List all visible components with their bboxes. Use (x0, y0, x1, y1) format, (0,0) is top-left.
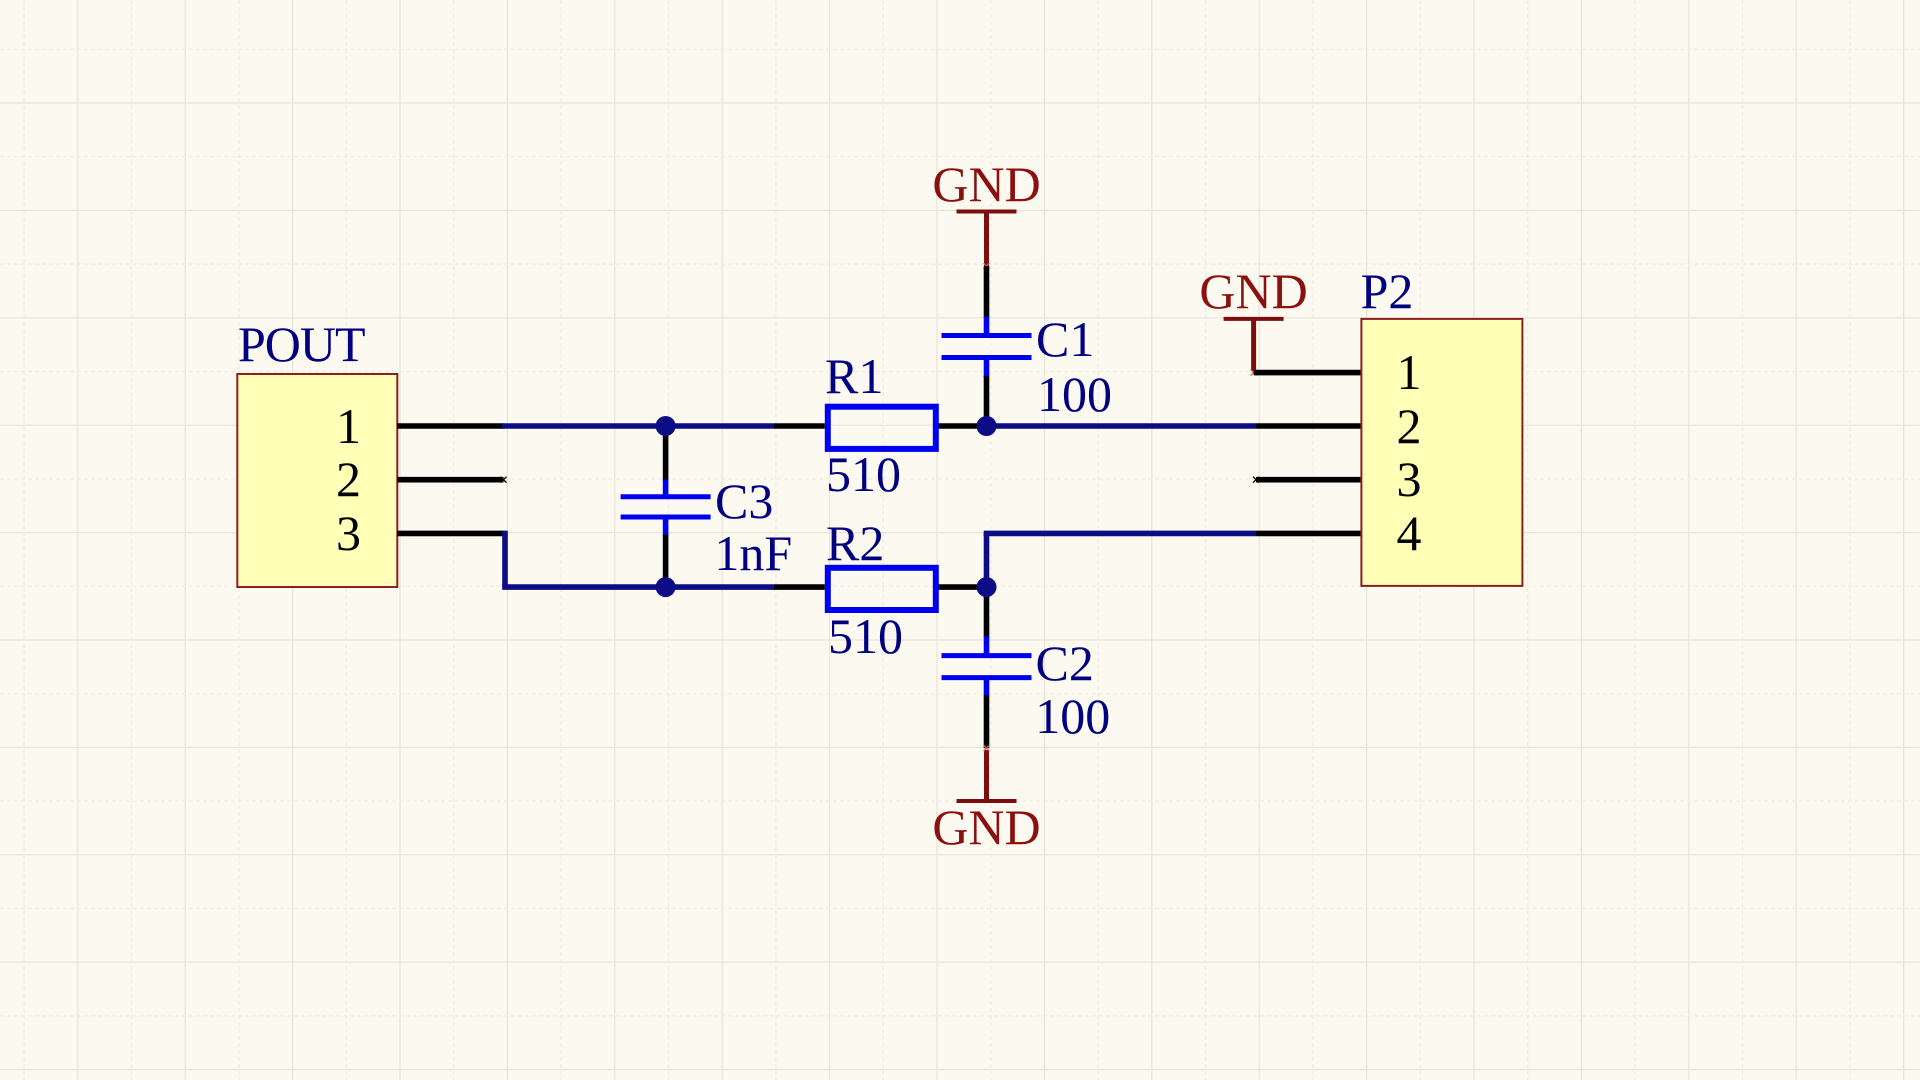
pin-end marker GND3 (984, 745, 990, 751)
wire net1 horizontal (navy) (502, 423, 773, 429)
resistor R1 pins (773, 423, 825, 429)
connector POUT body (237, 374, 397, 587)
wire to P2 pin 4 (984, 531, 1256, 537)
svg-text:GND: GND (1199, 263, 1307, 319)
svg-text:GND: GND (932, 156, 1040, 212)
resistor R2 pins (773, 584, 825, 590)
svg-text:510: 510 (828, 608, 903, 664)
svg-text:GND: GND (932, 799, 1040, 855)
capacitor C1 bottom lead (984, 376, 990, 426)
svg-text:C2: C2 (1036, 635, 1094, 691)
junction R1-C1 (977, 416, 997, 436)
pin-end marker GND1 (984, 263, 990, 269)
svg-text:C1: C1 (1036, 311, 1094, 367)
P2 pin 4 stub (1256, 531, 1361, 537)
svg-text:R2: R2 (826, 515, 884, 571)
svg-text:3: 3 (336, 505, 361, 561)
P2 pin 2 stub (1256, 423, 1361, 429)
wire from R2 junction up (984, 533, 990, 590)
capacitor C3 symbol (621, 480, 711, 536)
junction R2-C2 (977, 577, 997, 597)
capacitor C2 bottom lead (984, 695, 990, 748)
capacitor C1 symbol (942, 317, 1032, 377)
POUT pin 3 stub (397, 531, 503, 537)
resistor R2 body (828, 568, 936, 610)
resistor R1 body (828, 407, 936, 449)
gnd GND1 symbol (top) (932, 156, 1040, 266)
svg-text:4: 4 (1397, 505, 1422, 561)
POUT pin 2 end marker (501, 477, 507, 483)
svg-text:POUT: POUT (238, 316, 365, 372)
svg-text:100: 100 (1037, 366, 1112, 422)
connector P2 body (1361, 319, 1522, 586)
junction C3 bottom (656, 577, 676, 597)
capacitor C2 top lead (984, 587, 990, 637)
wire bottom net vertical drop from POUT pin3 (502, 531, 508, 588)
POUT pin 2 stub (unconnected) (397, 477, 503, 483)
capacitor C2 symbol (942, 636, 1032, 696)
P2 pin 3 stub (unconnected) (1256, 477, 1361, 483)
svg-text:2: 2 (336, 451, 361, 507)
gnd GND3 symbol (bottom) (932, 750, 1040, 855)
svg-text:100: 100 (1035, 688, 1110, 744)
svg-text:R1: R1 (825, 348, 883, 404)
POUT pin 1 stub (397, 423, 503, 429)
junction C3 top (656, 416, 676, 436)
wire net1 navy right of R1 junction (987, 423, 1257, 429)
svg-text:P2: P2 (1361, 263, 1414, 319)
wire bottom net horizontal (502, 584, 773, 590)
P2 pin 3 end marker (1253, 477, 1259, 483)
capacitor C3 bottom lead (663, 535, 669, 587)
svg-text:C3: C3 (715, 473, 773, 529)
pin-end marker GND2 (1251, 370, 1257, 376)
capacitor C3 top lead (663, 426, 669, 481)
svg-text:2: 2 (1397, 398, 1422, 454)
svg-text:510: 510 (826, 446, 901, 502)
capacitor C1 top lead (984, 266, 990, 318)
svg-text:1nF: 1nF (714, 525, 792, 581)
wire P2 pin1 stub to GND2 (1254, 370, 1362, 376)
gnd GND2 symbol (right) (1199, 263, 1307, 371)
svg-text:1: 1 (1397, 344, 1422, 400)
svg-text:1: 1 (336, 398, 361, 454)
svg-text:3: 3 (1397, 451, 1422, 507)
